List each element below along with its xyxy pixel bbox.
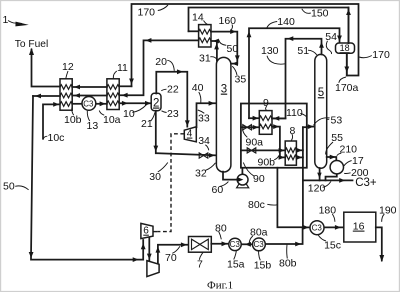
svg-text:To Fuel: To Fuel bbox=[15, 39, 48, 50]
svg-text:50: 50 bbox=[3, 180, 15, 192]
arrow down into turbine bbox=[147, 254, 152, 260]
leader 180 bbox=[332, 214, 335, 222]
arrow right into column 3 line 34 bbox=[209, 153, 215, 158]
svg-text:130: 130 bbox=[261, 45, 279, 57]
arrow left into HX14 row2 bbox=[213, 39, 219, 44]
wire HX9 row1 right to 130 leg bbox=[272, 117, 286, 119]
wire 160 from HX14 to column 3 bbox=[211, 32, 237, 64]
wire 60 column 3 bottoms to pump 90 bbox=[223, 172, 243, 180]
svg-text:5: 5 bbox=[318, 87, 324, 99]
leader 80a bbox=[249, 236, 253, 243]
svg-text:C3: C3 bbox=[254, 240, 265, 249]
svg-text:90b: 90b bbox=[258, 156, 276, 168]
control valve 90b bowtie bbox=[247, 148, 256, 153]
pump 17 bbox=[330, 161, 343, 174]
arrow up vessel18 vapor bbox=[346, 9, 351, 15]
pump 90 bbox=[237, 183, 249, 188]
leader 15b bbox=[259, 251, 261, 260]
leader 110 bbox=[300, 114, 306, 117]
arrow left into HX9 row1 right bbox=[273, 116, 279, 121]
leader 33 bbox=[198, 110, 205, 113]
svg-text:C3+: C3+ bbox=[355, 177, 377, 189]
JT valve 4 bbox=[184, 127, 196, 142]
wire 10c riser bbox=[43, 104, 60, 138]
svg-text:90a: 90a bbox=[246, 136, 264, 148]
svg-text:C3: C3 bbox=[230, 240, 241, 249]
wire B recycle down leg bbox=[302, 127, 304, 227]
svg-text:10a: 10a bbox=[103, 114, 121, 126]
svg-text:1: 1 bbox=[3, 14, 9, 26]
leader 190 bbox=[382, 214, 385, 222]
svg-text:C3: C3 bbox=[312, 224, 323, 233]
arrow right into HX9 row2 bbox=[253, 125, 259, 130]
svg-text:170: 170 bbox=[138, 6, 156, 18]
arrow right into column 3 feed 33 bbox=[209, 101, 215, 106]
arrow up turbine out riser bbox=[156, 247, 161, 253]
dashed control line 30 valve4 to valve6 bbox=[153, 134, 184, 232]
leader 13 bbox=[87, 111, 89, 121]
wire pump 90 riser bbox=[241, 168, 243, 175]
svg-text:55: 55 bbox=[331, 132, 343, 144]
arrow up column3 overhead riser bbox=[214, 43, 219, 49]
svg-text:9: 9 bbox=[263, 97, 269, 109]
svg-text:60: 60 bbox=[212, 184, 224, 196]
svg-text:14: 14 bbox=[192, 12, 204, 24]
arrow left line 130 bbox=[287, 36, 293, 41]
expander turbine bbox=[147, 261, 159, 277]
leader 9 bbox=[266, 106, 267, 110]
arrow right feed 53 into column 5 bbox=[308, 124, 314, 129]
arrow right into 15c bbox=[303, 225, 309, 230]
leader 55 bbox=[326, 142, 333, 155]
arrow right into box 16 bbox=[335, 225, 341, 230]
leader 1 swoosh bbox=[8, 21, 22, 24]
leader 51 bbox=[308, 50, 317, 55]
svg-text:80: 80 bbox=[215, 222, 227, 234]
leader 15c bbox=[318, 235, 326, 241]
svg-text:31: 31 bbox=[199, 52, 211, 64]
arrow up to fuel bbox=[29, 48, 34, 55]
svg-text:22: 22 bbox=[167, 83, 179, 95]
svg-text:180: 180 bbox=[319, 204, 337, 216]
leader 54 bbox=[326, 41, 331, 54]
svg-text:12: 12 bbox=[62, 61, 74, 73]
arrow left line 50 exit bbox=[35, 94, 41, 99]
separator vessel 2 bbox=[151, 93, 161, 110]
leader 170 right bbox=[359, 56, 372, 58]
leader 40 bbox=[199, 92, 201, 103]
arrow right bottom line bbox=[133, 257, 139, 262]
wire 53 feed into column 5 bbox=[307, 126, 314, 128]
svg-text:170a: 170a bbox=[335, 82, 359, 94]
leader 140 bbox=[267, 22, 277, 29]
valve on line 34 bowtie bbox=[199, 153, 208, 158]
leader 50 top bbox=[219, 40, 227, 46]
heat exchanger 11 bbox=[107, 79, 119, 110]
svg-text:70: 70 bbox=[165, 252, 177, 264]
arrow down into HX11 branch bbox=[129, 79, 134, 85]
svg-text:33: 33 bbox=[198, 112, 210, 124]
wire HX9 row2 right down to HX8 row2 bbox=[272, 127, 285, 158]
leader 7 bbox=[199, 253, 203, 260]
leader 21 bbox=[151, 112, 155, 121]
wire 70 turbine to compressor 7 bbox=[158, 245, 188, 264]
svg-text:160: 160 bbox=[219, 15, 237, 27]
svg-text:80c: 80c bbox=[248, 199, 265, 211]
svg-text:90: 90 bbox=[253, 173, 265, 185]
svg-text:4: 4 bbox=[187, 129, 193, 140]
leader 1 arrow dart bbox=[15, 22, 28, 27]
wire HX8 row2 right out bbox=[296, 156, 303, 158]
leader 80c bbox=[267, 203, 277, 206]
JT valve 6 bbox=[141, 223, 153, 238]
svg-text:20: 20 bbox=[155, 56, 167, 68]
arrow down into valve 4 bbox=[185, 120, 190, 126]
wire 21 vessel 2 bottom to column 3 bbox=[156, 111, 216, 156]
svg-text:35: 35 bbox=[235, 74, 247, 86]
wire vessel 18 bottom out bbox=[346, 53, 348, 75]
svg-text:140: 140 bbox=[277, 16, 295, 28]
wire 10b HX12 to C3 cooler bbox=[72, 103, 82, 105]
arrow right line 160 bbox=[230, 29, 236, 34]
svg-text:150: 150 bbox=[311, 8, 329, 20]
heat exchanger 12 bbox=[60, 79, 72, 110]
arrow right line 20 bbox=[177, 69, 183, 74]
wire 180 15c to box 16 bbox=[324, 226, 344, 228]
wire to fuel line bbox=[32, 50, 61, 87]
wire 140 into HX9 row1 left bbox=[249, 117, 259, 119]
arrow left into column 3 top bbox=[232, 61, 238, 66]
arrow up into valve 6 bbox=[141, 243, 146, 249]
wire 55 column 5 to pump 17 bbox=[327, 157, 337, 161]
svg-text:8: 8 bbox=[290, 125, 296, 137]
leader 170a bbox=[339, 77, 346, 83]
svg-text:120: 120 bbox=[308, 183, 326, 195]
arrow right HX8 row1 out bbox=[296, 148, 302, 153]
arrow right into HX12 line 10c bbox=[53, 102, 59, 107]
leader 22 bbox=[161, 89, 166, 91]
svg-text:C3: C3 bbox=[83, 99, 94, 108]
reflux drum 18 bbox=[336, 43, 355, 53]
leader 60 bbox=[220, 182, 229, 187]
svg-text:21: 21 bbox=[141, 118, 153, 130]
svg-text:170: 170 bbox=[372, 49, 390, 61]
leader 12 bbox=[66, 71, 68, 79]
leader 170 top bbox=[158, 5, 168, 11]
leader 10c bbox=[43, 136, 47, 139]
arrow up line 140 bbox=[247, 31, 252, 37]
svg-text:17: 17 bbox=[352, 155, 364, 167]
wire 140a HX14 row2 out to HX11 bbox=[119, 40, 198, 95]
leader 10 bbox=[132, 105, 146, 113]
wire HX11-HX12 row2 bbox=[72, 95, 107, 97]
wire column 5 bottoms stem bbox=[319, 168, 321, 180]
leader 210 bbox=[337, 153, 342, 156]
wire 170 outer top line bbox=[132, 4, 359, 86]
svg-text:50: 50 bbox=[227, 43, 239, 55]
svg-text:16: 16 bbox=[353, 221, 365, 233]
heat exchanger 9 bbox=[259, 111, 272, 135]
wire 10a C3 cooler to HX11 bbox=[96, 103, 107, 105]
arrow right C3 to HX11 bbox=[100, 101, 106, 106]
arrow right into HX9 row1 bbox=[253, 116, 259, 121]
column 5 bbox=[315, 54, 327, 168]
arrow right into pump 17 bbox=[330, 155, 336, 160]
wire 20 vessel 2 top to valve 4 bbox=[156, 72, 187, 127]
svg-text:15b: 15b bbox=[254, 259, 272, 271]
svg-text:6: 6 bbox=[143, 226, 149, 237]
leader 31 bbox=[210, 57, 217, 61]
arrow down column 5 stem bbox=[317, 173, 321, 179]
wire 50 HX12 out left bbox=[33, 95, 60, 97]
wire 190 box 16 outlet bbox=[376, 227, 382, 260]
arrow right into HX8 row1 bbox=[279, 148, 285, 153]
leader 20 bbox=[167, 60, 174, 71]
arrow right pump 90 inlet bbox=[237, 177, 243, 182]
arrow down into vessel 18 bbox=[337, 36, 342, 42]
arrow right out HX11 row3 bbox=[122, 101, 128, 106]
svg-text:51: 51 bbox=[297, 45, 309, 57]
wire 10 HX11 to vessel 2 bbox=[119, 102, 151, 104]
C3 cooler 15b bbox=[253, 238, 266, 251]
wire 80c down leg bbox=[277, 168, 302, 227]
leader 53 bbox=[314, 118, 330, 126]
wire 33 valve 4 to column 3 bbox=[197, 103, 216, 127]
arrow down vessel18 bottoms bbox=[344, 67, 349, 73]
leader 32 bbox=[206, 163, 216, 171]
svg-text:53: 53 bbox=[331, 114, 343, 126]
arrow right into compressor 7 bbox=[181, 242, 187, 247]
arrow left HX row1 between bbox=[74, 85, 80, 90]
svg-text:2: 2 bbox=[153, 98, 159, 110]
leader 23 bbox=[162, 111, 167, 113]
leader 200 bbox=[344, 172, 350, 175]
arrow right C3+ line bbox=[339, 178, 345, 183]
leader 130 bbox=[267, 56, 285, 64]
leader 15a bbox=[234, 251, 237, 260]
svg-text:32: 32 bbox=[195, 167, 207, 179]
arrow right HX9 row2 out bbox=[273, 124, 279, 129]
leader 34 bbox=[205, 145, 209, 151]
leader 14 bbox=[204, 21, 208, 25]
leader 17 bbox=[344, 161, 352, 167]
arrow right into 15a bbox=[222, 241, 228, 246]
arrow right into HX8 row2 bbox=[279, 155, 285, 160]
svg-text:Фиг.1: Фиг.1 bbox=[207, 280, 233, 292]
svg-text:190: 190 bbox=[379, 204, 397, 216]
svg-text:110: 110 bbox=[286, 107, 303, 119]
arrow down line 50 bottom bbox=[29, 252, 34, 258]
C3 cooler 15a bbox=[229, 238, 241, 250]
leader 53 dash bbox=[326, 118, 329, 120]
column 3 bbox=[216, 57, 231, 172]
svg-text:34: 34 bbox=[198, 135, 210, 147]
wire 15a to 15b bbox=[241, 243, 252, 245]
svg-text:54: 54 bbox=[325, 31, 337, 43]
leader 10a bbox=[99, 111, 104, 116]
svg-text:3: 3 bbox=[221, 84, 227, 96]
arrow left HX14 row2 out bbox=[145, 38, 151, 43]
wire valve 6 to turbine bbox=[148, 238, 150, 261]
svg-text:10: 10 bbox=[123, 108, 135, 120]
arrow right HX8 row2 out bbox=[296, 155, 302, 160]
leader 11 bbox=[113, 71, 117, 79]
wire 90b branch to HX8 row1 bbox=[241, 149, 285, 151]
C3 cooler 15c bbox=[310, 221, 324, 235]
svg-text:23: 23 bbox=[167, 108, 179, 120]
arrow down line 160 leg bbox=[235, 55, 240, 61]
wire stub B to box edge bbox=[303, 126, 307, 128]
arrow down vessel 2 bottoms bbox=[153, 146, 158, 152]
leader 70 bbox=[172, 246, 180, 253]
wire pump 17 discharge bbox=[326, 174, 337, 181]
arrow left HX row2 between bbox=[74, 93, 80, 98]
wire 80b 15b to riser bbox=[265, 228, 302, 244]
svg-text:15a: 15a bbox=[227, 258, 245, 270]
control valve 90a bowtie bbox=[243, 125, 252, 130]
svg-text:13: 13 bbox=[87, 120, 99, 132]
compressor 7 box bbox=[189, 237, 212, 253]
svg-text:30: 30 bbox=[149, 171, 161, 183]
leader 90b bbox=[274, 156, 279, 160]
heat exchanger 14 bbox=[199, 25, 211, 47]
arrow up column5 overhead bbox=[319, 42, 324, 48]
arrow right into vessel 2 bbox=[145, 101, 151, 106]
svg-text:10b: 10b bbox=[64, 114, 82, 126]
wire 50 long left line to valve 6 bbox=[31, 96, 143, 260]
leader 150 bbox=[302, 9, 311, 14]
leader 8 bbox=[291, 134, 292, 141]
wire 170 into HX11 bbox=[119, 85, 131, 87]
arrow left into 15a right bbox=[245, 242, 251, 247]
C3 cooler 13 bbox=[82, 97, 96, 111]
wire HX8 row1 right out bbox=[296, 149, 303, 151]
leader 120 bbox=[323, 181, 331, 187]
svg-text:15c: 15c bbox=[324, 240, 341, 252]
svg-text:11: 11 bbox=[117, 62, 128, 74]
wire into C3 15c bbox=[303, 226, 310, 228]
heat exchanger 8 bbox=[285, 141, 296, 165]
svg-text:18: 18 bbox=[340, 43, 350, 53]
arrow down line 190 end bbox=[379, 255, 384, 262]
leader 35 bbox=[232, 66, 237, 75]
leader 50 left bbox=[15, 186, 28, 190]
leader 80b bbox=[286, 245, 289, 259]
wire compressor 7 to C3 15a bbox=[211, 243, 228, 245]
wire 90a branch to HX9 row2 bbox=[241, 126, 259, 128]
leader 30 bbox=[158, 163, 168, 173]
wire 140 line bbox=[249, 28, 340, 118]
arrow left into HX11 row2 bbox=[122, 93, 128, 98]
wire 150 into HX14 left bbox=[189, 30, 199, 32]
svg-text:80a: 80a bbox=[250, 226, 268, 238]
unit box 16 bbox=[344, 212, 376, 242]
leader 90a bbox=[243, 129, 248, 137]
svg-text:80b: 80b bbox=[279, 257, 297, 269]
svg-text:210: 210 bbox=[340, 144, 358, 156]
arrow right line 80b bbox=[295, 242, 301, 247]
leader 10b bbox=[72, 108, 74, 115]
svg-text:7: 7 bbox=[197, 259, 203, 271]
wire vessel 18 vapor out top bbox=[348, 8, 350, 44]
wire 51 column 3 overhead to HX14 bbox=[211, 41, 217, 61]
svg-text:40: 40 bbox=[192, 82, 204, 94]
leader 80 bbox=[219, 232, 222, 240]
wire 130 riser from column 5 bbox=[272, 39, 321, 119]
svg-text:10c: 10c bbox=[48, 132, 65, 144]
wire HX11-HX12 row1 bbox=[72, 86, 107, 88]
leader 160 bbox=[231, 25, 233, 31]
wire 150 inner top line bbox=[189, 8, 349, 43]
wire 120 C3+ product line bbox=[303, 179, 353, 181]
wire boiler circuit box bbox=[241, 104, 307, 168]
leader 90 bbox=[243, 163, 254, 177]
